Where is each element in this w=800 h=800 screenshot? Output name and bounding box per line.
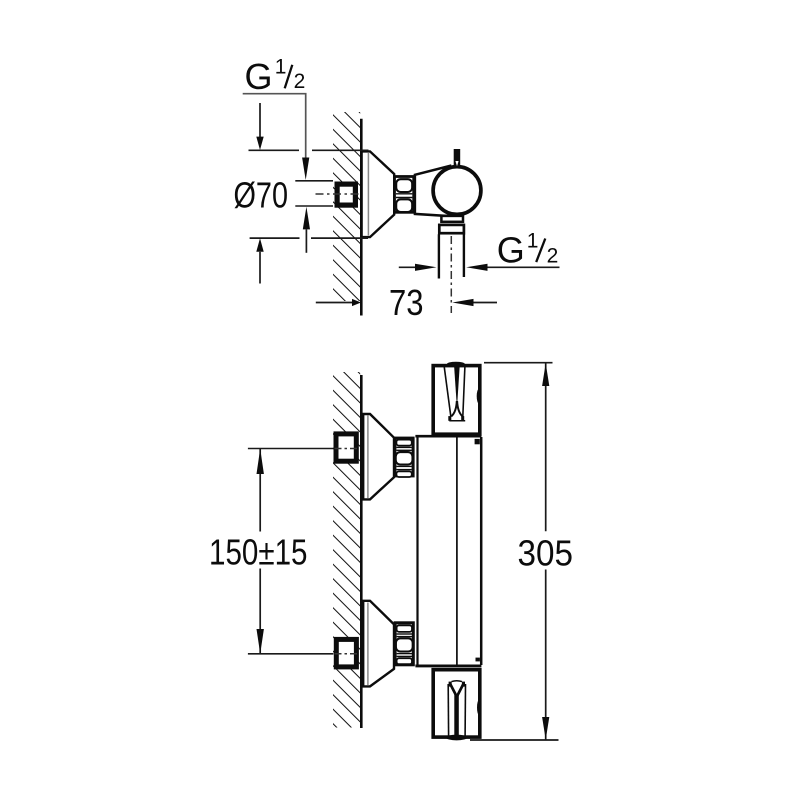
G1/2 right dimension line right part: [466, 264, 487, 271]
valve body (side view): [415, 166, 452, 216]
svg-text:73: 73: [389, 282, 424, 323]
G1/2 leader arrow up: [303, 207, 310, 230]
tick above bottom cap: [476, 658, 480, 662]
svg-text:305: 305: [518, 532, 574, 573]
bottom handle cap (front view): [433, 670, 480, 737]
escutcheon cone (side view): [362, 151, 395, 237]
G1/2 right dimension line left part: [399, 266, 416, 268]
wall face line (side view): [360, 119, 363, 316]
dimension 73 line left part: [316, 302, 352, 304]
svg-text:1: 1: [275, 56, 287, 79]
top cap slot top ellipse: [447, 362, 465, 367]
thermostat knob circle (side view): [433, 167, 481, 215]
pipe centerline (side view, dash-dot vertical): [450, 236, 452, 313]
dimension 73 line right part: [452, 299, 473, 306]
wall union square (side view): [337, 184, 355, 205]
wall hatching (front view): [333, 372, 360, 728]
tick below top cap: [475, 439, 480, 444]
nut facet upper (side view): [396, 179, 412, 192]
nut middle lines (side view): [396, 193, 412, 195]
knob stem (side view): [454, 149, 461, 167]
bottom cap slot top arc: [452, 680, 463, 683]
dimension O70 extension line bottom: [250, 237, 300, 239]
dimension 305 extension line top: [484, 362, 553, 364]
G1/2 underline leader: [243, 94, 306, 158]
G1/2 leader arrow down: [302, 158, 309, 181]
lower connection nut (front view): [395, 623, 413, 665]
bottom cap right-edge crescent: [477, 700, 481, 716]
bottom cap bottom ellipse: [446, 735, 467, 741]
svg-text:G: G: [497, 230, 525, 271]
thread extension line bottom (side view): [295, 205, 333, 207]
escutcheon flange inner edge (side view): [367, 153, 369, 236]
top cap right-edge crescent: [477, 389, 482, 404]
nut facet lower (side view): [396, 199, 412, 212]
svg-text:2: 2: [547, 244, 559, 267]
O70 outside arrow lower: [256, 238, 263, 252]
bottom cap Y slot: [454, 694, 459, 738]
wall face line (front view): [360, 375, 363, 728]
union centerlines dash-dot (front view): [335, 448, 360, 450]
upper connection nut (front view): [395, 438, 413, 477]
upper escutcheon cone (front view): [363, 414, 394, 499]
top handle cap (front view): [433, 366, 480, 435]
bottom cap slot side lines: [447, 684, 449, 736]
dimension 150+-15 vertical line: [259, 449, 261, 532]
union centerline (side view, dash-dot): [316, 193, 360, 195]
outlet collar ring 2 (side view): [439, 225, 464, 233]
outlet pipe left edge (side view): [438, 234, 440, 278]
upper wall union square (front view): [336, 434, 356, 461]
svg-text:150±15: 150±15: [209, 532, 308, 573]
mixer body (front view): [415, 436, 481, 666]
top cap wedge slot: [454, 366, 460, 403]
upper union centerline: [248, 448, 334, 450]
lower wall union square (front view): [336, 639, 356, 667]
O70 outside arrow upper: [259, 103, 261, 137]
bottom cap slot end dots: [449, 682, 452, 687]
top cap slot end dots: [448, 416, 451, 421]
lower escutcheon cone (front view): [363, 601, 394, 687]
lower union centerline: [248, 653, 334, 655]
top cap slot bottom line: [449, 420, 465, 422]
outlet pipe right edge (side view): [463, 234, 465, 277]
outlet collar ring 1 (side view): [441, 216, 463, 222]
svg-text:G: G: [245, 56, 273, 97]
svg-text:Ø70: Ø70: [234, 175, 289, 216]
dimension 305 vertical line: [545, 363, 547, 531]
top cap slot side lines: [444, 367, 451, 418]
dimension G1/2 right label: [497, 230, 558, 271]
dimension G1/2 top label: [245, 56, 306, 98]
svg-text:1: 1: [527, 230, 539, 253]
dimension 305 extension line bottom: [470, 739, 559, 741]
thread extension line top (side view): [295, 180, 333, 182]
svg-text:2: 2: [294, 70, 306, 93]
connection nut (side view): [395, 177, 414, 213]
wall hatching (side view): [333, 112, 360, 301]
dimension O70 extension line top: [249, 149, 300, 151]
